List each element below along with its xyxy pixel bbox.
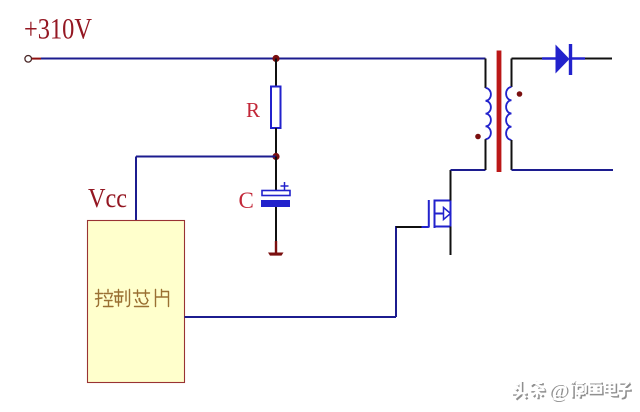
transistor Q1 MOSFET (422, 200, 451, 229)
wire top rail (41, 58, 486, 60)
wire node to capacitor (275, 157, 277, 191)
node secondary dot (517, 91, 523, 97)
node junction top (272, 55, 279, 62)
wire primary top lead (485, 59, 487, 89)
wire to gate (396, 226, 422, 228)
resistor R (271, 87, 281, 129)
svg-text:R: R (246, 98, 260, 122)
ground (268, 253, 284, 256)
transformer T1 primary winding (486, 88, 491, 139)
capacitor C polarity plus (281, 182, 289, 190)
wire node to Vcc branch (136, 156, 276, 158)
svg-text:C: C (239, 188, 254, 213)
transformer T1 core (497, 51, 502, 173)
wire chip to gate branch (185, 316, 397, 318)
wire drain up (450, 170, 452, 201)
diode D1 (542, 44, 585, 75)
wire secondary top to diode (512, 58, 543, 60)
wire diode to output (585, 58, 612, 60)
wire secondary top lead (511, 59, 513, 88)
label 控制芯片 (96, 290, 169, 307)
capacitor C bottom plate (261, 200, 290, 207)
wire drain to primary (451, 169, 486, 171)
wire secondary bottom lead (511, 140, 513, 170)
wire primary bottom lead (485, 139, 487, 170)
wire capacitor to ground (275, 207, 277, 241)
node primary dot (475, 134, 481, 140)
svg-text:Vcc: Vcc (88, 183, 127, 213)
wire secondary bottom to output (512, 169, 614, 171)
svg-text:+310V: +310V (24, 13, 92, 46)
wire gate branch up (395, 226, 397, 317)
node junction middle (272, 153, 279, 160)
terminal +310V input (25, 56, 41, 63)
wire source down (450, 227, 452, 256)
wire resistor to node (275, 128, 277, 156)
capacitor C top plate (262, 191, 290, 196)
watermark 头条 @衡丽电子 (512, 380, 632, 403)
ground lead (275, 241, 277, 253)
transformer T1 secondary winding (506, 87, 511, 140)
IC U1 control chip box (88, 221, 185, 383)
wire Vcc branch down to chip (135, 157, 137, 221)
svg-text:@: @ (549, 380, 568, 401)
wire junction to resistor (275, 59, 277, 87)
